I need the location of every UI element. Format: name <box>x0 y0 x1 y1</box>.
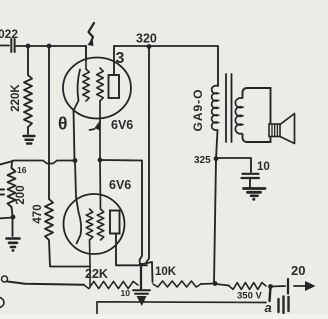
tube V1 screen grid g2 <box>97 68 104 101</box>
wire V2 g2 lead up <box>99 160 102 209</box>
wire 470 bottom to V2 grid <box>49 240 90 267</box>
wire rail to 22K <box>8 282 85 285</box>
tube V2 control grid g1 <box>86 209 93 240</box>
wire left edge stub <box>0 161 13 165</box>
wire V2 plate lead down <box>116 234 147 266</box>
tube V2 screen grid g2 <box>97 209 104 240</box>
wire node to 10K jog <box>140 262 153 282</box>
capacitor C4 10 filter <box>243 173 259 175</box>
wire V1 plate lead up <box>113 46 115 75</box>
wire 10K to B+ node <box>201 283 214 286</box>
ground GND1 under R1 <box>24 135 35 137</box>
tube V1 6V6 envelope <box>63 58 131 119</box>
wire screen bus right segment <box>100 159 142 162</box>
wire R2 bottom lead <box>12 207 13 216</box>
node 200 bottom junction <box>11 215 16 220</box>
speaker cone <box>280 114 295 144</box>
wire g1 node to rail <box>89 267 91 286</box>
wire bottom rail <box>97 302 266 314</box>
ground arrow under C2 <box>137 296 147 306</box>
wire input lead left edge <box>0 45 9 47</box>
tube V2 6V6 envelope <box>64 194 125 254</box>
wire screen bus left segment <box>13 161 75 164</box>
wire screen-bus drop <box>140 161 143 265</box>
ground GND3 under C4 <box>244 187 266 190</box>
resistor R5 10K <box>153 281 201 287</box>
wire + arrow output <box>294 285 306 287</box>
tube V2 cathode <box>75 161 81 244</box>
node 350V junction <box>268 284 273 289</box>
capacitor (cropped) at left edge <box>0 189 4 191</box>
node 320 junction <box>147 44 152 49</box>
wire long drop from 320 node <box>147 47 150 263</box>
node screen junction <box>98 158 103 163</box>
wire plate rail 320V <box>114 46 218 86</box>
node grid junction A <box>26 44 31 49</box>
speaker voice coil square hatched <box>269 124 280 137</box>
node grid junction B <box>47 44 52 49</box>
wire B+ riser to primary <box>214 130 218 284</box>
wire node down to cap <box>140 264 142 290</box>
wire to output cap <box>271 285 286 288</box>
wire V2 g1 lead <box>89 240 92 267</box>
tube V1 cathode <box>74 70 80 110</box>
terminal o left <box>2 276 8 282</box>
wire to dropper <box>216 284 229 286</box>
wire V1 cathode lead down <box>74 110 75 161</box>
resistor R3 470 <box>45 199 53 240</box>
tube V2 plate <box>110 211 120 234</box>
node cathode bus junction <box>73 158 78 163</box>
wire 220K bottom lead <box>27 127 29 134</box>
resistor R2 200 <box>8 168 16 207</box>
node B+ divider junction <box>213 281 218 286</box>
node 325 junction <box>214 156 219 161</box>
tube V1 plate (pin 3) <box>109 75 120 98</box>
resistor R1 220K <box>24 75 32 127</box>
transformer T1 primary winding <box>212 86 218 131</box>
wire junction drop <box>270 287 271 302</box>
terminal arc (cropped) bottom left <box>0 297 4 308</box>
transformer T1 secondary winding loops <box>235 98 242 134</box>
wire cap to ground <box>249 179 251 187</box>
battery bars <box>277 299 279 312</box>
wire stub to left edge <box>0 218 13 219</box>
wire to filter cap <box>216 158 251 172</box>
wire grid stopper drop (node B down) <box>48 46 50 199</box>
speaker LS1 frame <box>243 88 271 124</box>
transformer T1 core <box>225 74 227 142</box>
wire 220K top lead <box>27 46 29 75</box>
tube V1 control grid g1 <box>83 69 90 101</box>
wire V1 g1 lead <box>85 46 87 69</box>
capacitor C1 .022 coupling <box>10 39 12 52</box>
wire V1 g2 lead down with arrow <box>99 101 101 160</box>
wire grid bus to tube V1 <box>16 46 86 60</box>
resistor R4 22K <box>84 281 138 288</box>
wire ground lead <box>12 217 14 236</box>
wire R2 top lead <box>11 161 14 168</box>
ground GND2 under R2 <box>7 237 20 240</box>
capacitor C2 10 bypass <box>133 289 150 291</box>
capacitor C3 20 output <box>287 279 289 294</box>
resistor R6 dropper <box>229 283 266 290</box>
input arrow squiggle <box>89 23 95 43</box>
